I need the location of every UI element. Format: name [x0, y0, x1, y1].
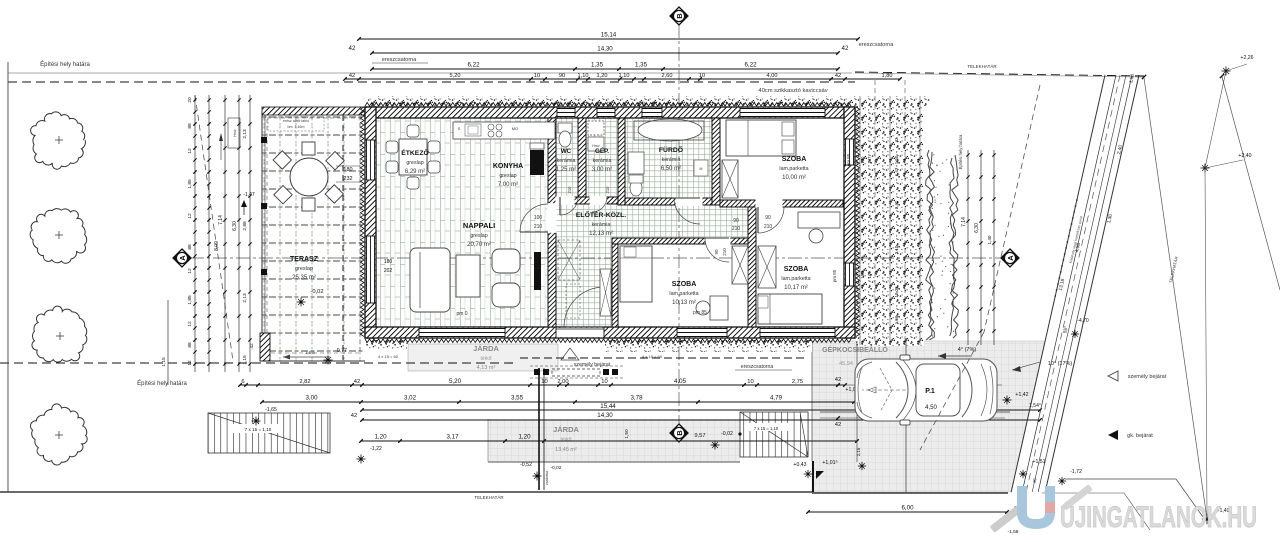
svg-text:12: 12 — [187, 321, 193, 327]
svg-text:lam.parketta: lam.parketta — [669, 291, 698, 297]
svg-text:1,47: 1,47 — [894, 167, 899, 176]
svg-text:erész alatti tabló: erész alatti tabló — [283, 119, 309, 123]
svg-text:232: 232 — [343, 176, 352, 182]
svg-text:12: 12 — [187, 360, 193, 366]
svg-text:1,56: 1,56 — [894, 315, 899, 324]
svg-text:A: A — [1006, 255, 1015, 261]
svg-text:A: A — [178, 255, 187, 261]
svg-text:3,02: 3,02 — [404, 395, 417, 402]
svg-text:5,20: 5,20 — [449, 378, 462, 385]
svg-text:kerámia: kerámia — [557, 158, 576, 164]
svg-text:2,13: 2,13 — [242, 293, 248, 303]
svg-text:2,60: 2,60 — [662, 73, 673, 79]
svg-text:greslap: greslap — [470, 233, 487, 239]
svg-text:Építési hely határa: Építési hely határa — [958, 134, 963, 169]
svg-text:csatorna: csatorna — [545, 470, 549, 485]
svg-text:210: 210 — [732, 226, 741, 232]
svg-text:40cm szikkasztó kaviccsáv: 40cm szikkasztó kaviccsáv — [758, 88, 827, 94]
svg-text:pm 85: pm 85 — [832, 269, 837, 282]
svg-text:MO: MO — [512, 126, 518, 131]
svg-text:FÜRDŐ: FÜRDŐ — [659, 145, 683, 154]
svg-text:1,5%: 1,5% — [305, 350, 315, 355]
svg-text:12,13 m²: 12,13 m² — [589, 231, 613, 237]
svg-text:210: 210 — [567, 186, 572, 194]
svg-text:150: 150 — [860, 156, 865, 164]
svg-text:7,00 m²: 7,00 m² — [498, 182, 518, 188]
svg-text:12: 12 — [187, 213, 193, 219]
svg-text:4,00: 4,00 — [767, 73, 778, 79]
svg-text:90: 90 — [714, 249, 719, 255]
svg-text:-0,02: -0,02 — [551, 465, 562, 471]
svg-text:3,17: 3,17 — [446, 434, 459, 441]
svg-text:180: 180 — [384, 259, 393, 265]
svg-text:+0,43: +0,43 — [793, 462, 806, 468]
svg-text:Építési hely határa: Építési hely határa — [40, 61, 90, 68]
svg-text:pm 85: pm 85 — [693, 310, 707, 316]
svg-text:1,50: 1,50 — [894, 155, 899, 164]
svg-text:UJINGATLANOK.HU: UJINGATLANOK.HU — [1060, 501, 1257, 534]
svg-text:+2,26: +2,26 — [1240, 55, 1253, 61]
svg-text:202: 202 — [384, 268, 393, 274]
svg-text:S: S — [458, 126, 461, 131]
svg-text:14,30: 14,30 — [597, 412, 613, 419]
svg-text:90: 90 — [765, 215, 771, 221]
svg-text:kerámia: kerámia — [592, 222, 611, 228]
svg-text:7 x 15 = 1,10: 7 x 15 = 1,10 — [754, 426, 779, 431]
svg-text:-0,52: -0,52 — [520, 462, 532, 468]
svg-text:3,00: 3,00 — [305, 395, 318, 402]
svg-text:-1,65: -1,65 — [265, 407, 277, 413]
svg-text:7,14: 7,14 — [218, 215, 224, 225]
svg-text:Építési hely határa: Építési hely határa — [137, 380, 187, 387]
svg-text:10: 10 — [699, 73, 705, 79]
svg-text:WC: WC — [561, 148, 572, 155]
svg-text:1,80: 1,80 — [882, 73, 893, 79]
svg-text:156: 156 — [860, 271, 865, 279]
svg-text:greslap: greslap — [406, 160, 423, 166]
svg-text:SZOBA: SZOBA — [782, 156, 807, 163]
svg-text:B: B — [675, 430, 684, 436]
svg-text:10: 10 — [534, 73, 540, 79]
svg-text:42: 42 — [835, 377, 841, 383]
svg-text:12: 12 — [187, 268, 193, 274]
svg-text:2,13: 2,13 — [242, 129, 248, 139]
svg-text:1,50: 1,50 — [624, 429, 630, 439]
svg-text:3,00 m²: 3,00 m² — [592, 167, 612, 173]
svg-text:lam.parketta: lam.parketta — [779, 166, 808, 172]
svg-text:1,15: 1,15 — [161, 357, 167, 367]
svg-text:TELEKHATÁR: TELEKHATÁR — [967, 63, 997, 69]
svg-text:6: 6 — [241, 379, 244, 385]
svg-text:180: 180 — [343, 167, 352, 173]
svg-text:GÉP.: GÉP. — [595, 147, 609, 155]
svg-text:1,10: 1,10 — [578, 73, 589, 79]
svg-text:8,09: 8,09 — [214, 241, 220, 251]
svg-text:NAPPALI: NAPPALI — [463, 221, 495, 230]
svg-text:10,13 m²: 10,13 m² — [672, 300, 696, 306]
svg-text:6,30: 6,30 — [974, 223, 980, 233]
svg-text:B: B — [675, 13, 684, 19]
svg-text:42: 42 — [349, 45, 356, 52]
svg-text:1,25 m²: 1,25 m² — [556, 167, 576, 173]
svg-text:1,20: 1,20 — [518, 434, 531, 441]
svg-text:-0,02: -0,02 — [721, 431, 733, 437]
svg-text:12,38: 12,38 — [894, 286, 899, 298]
svg-text:88: 88 — [187, 342, 193, 348]
svg-text:kerámia: kerámia — [593, 158, 612, 164]
svg-text:6,00: 6,00 — [901, 505, 914, 512]
svg-text:15,14: 15,14 — [601, 32, 617, 39]
svg-text:4 x 15 = 60: 4 x 15 = 60 — [378, 354, 399, 359]
svg-text:P.1: P.1 — [925, 388, 935, 395]
svg-text:ereszcsatorna: ereszcsatorna — [382, 57, 417, 63]
svg-text:14,30: 14,30 — [597, 46, 613, 53]
svg-text:25,35 m²: 25,35 m² — [292, 275, 316, 281]
svg-text:1,85: 1,85 — [187, 179, 193, 189]
svg-text:88: 88 — [187, 244, 193, 250]
svg-text:KONYHA: KONYHA — [493, 163, 523, 170]
svg-text:1,10: 1,10 — [619, 73, 630, 79]
svg-text:személy bejárat: személy bejárat — [574, 362, 611, 368]
svg-text:4,79: 4,79 — [770, 395, 783, 402]
svg-text:3,55: 3,55 — [511, 395, 524, 402]
svg-text:4,05: 4,05 — [674, 378, 687, 385]
svg-text:42: 42 — [835, 422, 841, 428]
svg-text:GÉPKOCSIBEÁLLÓ: GÉPKOCSIBEÁLLÓ — [822, 345, 888, 354]
svg-text:100: 100 — [534, 215, 543, 221]
svg-text:6,22: 6,22 — [744, 62, 757, 69]
svg-text:12: 12 — [187, 148, 193, 154]
svg-text:2,82: 2,82 — [299, 379, 310, 385]
svg-text:ELŐTÉR-KÖZL.: ELŐTÉR-KÖZL. — [576, 210, 626, 219]
svg-text:1,20: 1,20 — [597, 73, 608, 79]
svg-text:lam.parketta: lam.parketta — [781, 276, 810, 282]
svg-text:10: 10 — [747, 379, 753, 385]
svg-text:2,88: 2,88 — [242, 221, 248, 231]
svg-text:-0,02: -0,02 — [310, 289, 323, 295]
svg-text:4,50: 4,50 — [925, 405, 937, 411]
svg-text:42: 42 — [249, 343, 255, 349]
svg-text:210: 210 — [605, 186, 610, 194]
svg-text:greslap: greslap — [295, 266, 313, 272]
svg-text:ÉTKEZŐ: ÉTKEZŐ — [401, 148, 429, 157]
svg-text:13,45 m²: 13,45 m² — [555, 447, 577, 453]
svg-text:42: 42 — [354, 379, 360, 385]
svg-text:TERASZ: TERASZ — [290, 256, 319, 263]
svg-text:2,00: 2,00 — [557, 379, 568, 385]
svg-text:7 x 15 = 1,10: 7 x 15 = 1,10 — [245, 427, 272, 432]
svg-text:210: 210 — [764, 224, 773, 230]
svg-text:pm 85: pm 85 — [846, 153, 851, 166]
svg-text:-0,77: -0,77 — [335, 348, 347, 354]
svg-text:greslap: greslap — [499, 173, 516, 179]
svg-text:1,40: 1,40 — [987, 235, 992, 244]
svg-text:bm: 1,46m: bm: 1,46m — [288, 125, 305, 129]
svg-text:+1,51: +1,51 — [1032, 459, 1045, 465]
svg-text:88: 88 — [187, 123, 193, 129]
svg-text:2,10: 2,10 — [894, 245, 899, 254]
svg-text:1,85: 1,85 — [187, 295, 193, 305]
svg-text:ereszcsatorna: ereszcsatorna — [741, 364, 774, 370]
svg-text:-1,58: -1,58 — [1008, 529, 1019, 535]
svg-text:+1,42: +1,42 — [1015, 392, 1028, 398]
svg-text:-1,72: -1,72 — [1070, 469, 1082, 475]
svg-text:Hrsz: Hrsz — [233, 129, 237, 136]
svg-text:személy bejárat: személy bejárat — [1128, 374, 1167, 380]
svg-text:ereszcsatorna: ereszcsatorna — [859, 42, 894, 48]
svg-text:2,40: 2,40 — [894, 200, 899, 209]
svg-text:2,75: 2,75 — [792, 379, 803, 385]
svg-text:pm 0: pm 0 — [456, 311, 467, 317]
svg-text:JÁRDA: JÁRDA — [473, 344, 499, 353]
svg-text:15,44: 15,44 — [600, 403, 616, 410]
svg-text:4° (7%): 4° (7%) — [958, 347, 977, 353]
svg-text:210: 210 — [534, 224, 543, 230]
svg-text:10,00 m²: 10,00 m² — [782, 175, 806, 181]
svg-text:kerámia: kerámia — [662, 157, 681, 163]
svg-text:9,57: 9,57 — [694, 433, 705, 439]
svg-text:-1,47: -1,47 — [243, 192, 255, 198]
svg-text:45,94: 45,94 — [839, 361, 853, 367]
svg-text:147: 147 — [867, 156, 872, 164]
svg-text:+2,40: +2,40 — [1238, 153, 1251, 159]
svg-text:10,17 m²: 10,17 m² — [784, 285, 808, 291]
svg-text:20,70 m²: 20,70 m² — [467, 242, 491, 248]
svg-text:JÁRDA: JÁRDA — [553, 425, 579, 434]
svg-text:M: M — [700, 167, 703, 171]
svg-text:5,20: 5,20 — [450, 73, 461, 79]
svg-text:térkő: térkő — [560, 437, 571, 443]
svg-text:6,29 m²: 6,29 m² — [405, 169, 425, 175]
svg-text:42: 42 — [842, 45, 849, 52]
svg-text:42: 42 — [894, 137, 899, 142]
svg-text:42: 42 — [835, 73, 841, 79]
svg-text:-4,70: -4,70 — [1077, 318, 1089, 324]
svg-text:10: 10 — [541, 379, 547, 385]
svg-text:1,35: 1,35 — [591, 62, 604, 69]
svg-text:TELEKHATÁR: TELEKHATÁR — [474, 494, 504, 500]
svg-text:6,22: 6,22 — [467, 62, 480, 69]
svg-text:gk. bejárat: gk. bejárat — [1127, 433, 1153, 439]
svg-text:térkő: térkő — [480, 356, 491, 362]
svg-text:1,20: 1,20 — [374, 434, 387, 441]
svg-text:3,78: 3,78 — [630, 395, 643, 402]
svg-text:1,15: 1,15 — [242, 355, 248, 365]
svg-text:10: 10 — [601, 379, 607, 385]
svg-text:210: 210 — [722, 248, 727, 256]
svg-text:6,30: 6,30 — [232, 221, 238, 231]
svg-text:+1,01⁵: +1,01⁵ — [822, 460, 837, 466]
svg-text:4,13 m²: 4,13 m² — [477, 365, 496, 371]
svg-text:147: 147 — [867, 271, 872, 279]
svg-text:90: 90 — [559, 73, 565, 79]
svg-text:SZOBA: SZOBA — [784, 266, 809, 273]
svg-text:20: 20 — [187, 97, 193, 103]
svg-text:90: 90 — [733, 218, 739, 224]
svg-text:SZOBA: SZOBA — [672, 281, 697, 288]
svg-text:42: 42 — [349, 73, 355, 79]
svg-text:6,50 m²: 6,50 m² — [661, 166, 681, 172]
svg-text:1,35: 1,35 — [635, 62, 648, 69]
svg-text:42: 42 — [351, 413, 357, 419]
svg-text:7,14: 7,14 — [961, 217, 967, 227]
svg-text:-1,22: -1,22 — [370, 446, 382, 452]
